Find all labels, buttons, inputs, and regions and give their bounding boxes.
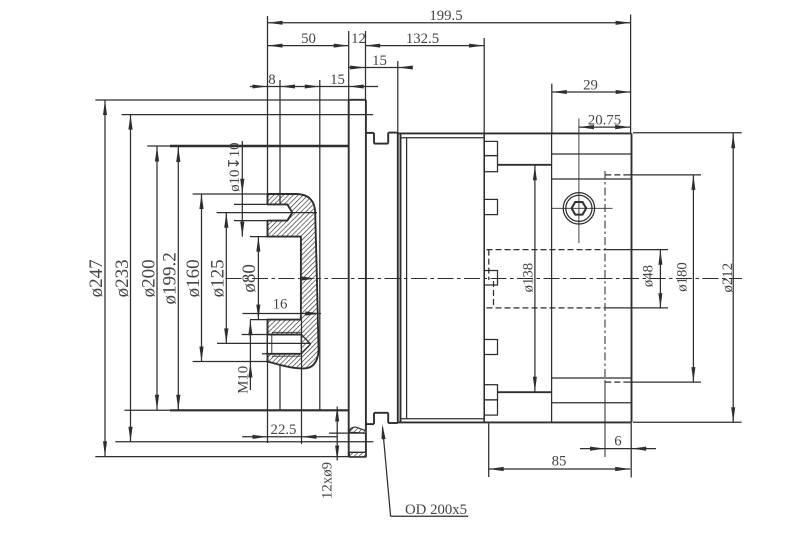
plate bolt hole lower hatch sliver — [349, 452, 366, 457]
front pilot ring lower profile — [366, 413, 398, 424]
dim ø138 line — [533, 165, 537, 392]
svg-text:29: 29 — [583, 77, 598, 93]
svg-text:ø80: ø80 — [239, 264, 260, 293]
arrow on centerline to sleeve edge — [301, 276, 316, 280]
dim 12 text — [351, 31, 366, 47]
output flange cross-section (hatched) — [268, 194, 319, 368]
gearbox body rear edge — [483, 133, 485, 422]
dim ø200 label — [138, 259, 159, 297]
lower tapped hole drill cone — [301, 335, 310, 354]
ext dia212 top — [633, 132, 742, 134]
svg-text:ø138: ø138 — [521, 263, 537, 293]
dim ø160 line — [199, 194, 203, 362]
dim 50 line — [268, 44, 349, 48]
svg-text:15: 15 — [372, 53, 387, 69]
dim ø233 line — [128, 115, 132, 442]
ext for lower slot top — [242, 334, 268, 336]
dim 50 text — [301, 31, 316, 47]
callout 12xø9 text — [320, 462, 336, 499]
dim ø199.2 label — [160, 252, 181, 304]
ext dia180 bottom — [627, 381, 701, 383]
screw centerlines — [552, 119, 613, 244]
svg-text:ø160: ø160 — [183, 259, 204, 297]
ext line y=100 (plate top to dia247 dim) — [95, 99, 348, 101]
dim ø200 line — [155, 147, 159, 410]
callout ø10 cbore leader — [240, 141, 244, 237]
bolt hole centerline bottom y=441.7 — [115, 441, 373, 443]
plate bolt hole line y=433.1 — [329, 432, 366, 434]
ext x=551.8 above rear flange — [551, 84, 553, 134]
socket head cap screw (front view circles) — [563, 193, 594, 224]
ext x=348.7 above plate — [348, 31, 350, 100]
callout OD 200x5 text — [391, 502, 469, 518]
svg-text:ø180: ø180 — [675, 262, 691, 292]
dim 22.5 line — [242, 435, 337, 439]
dim ø138 label — [521, 263, 537, 293]
dim 20.75 line — [579, 125, 630, 129]
center axis (horizontal dash-dot centerline) — [226, 278, 743, 280]
front pilot ring upper profile (OD 200x5 spigot) — [366, 133, 398, 144]
ext x=631.2 below rear (85/6 dims) — [630, 423, 632, 478]
dim 8 text — [268, 72, 275, 88]
gearbox body front face (double line) — [398, 133, 401, 422]
upper hole centerline y=212.6 — [217, 212, 317, 214]
ext y=361.5 (dia160 bottom) — [193, 361, 268, 363]
dim 29 line — [552, 90, 631, 94]
ext y=236.6 (dia80 bore top) — [250, 236, 268, 238]
ext x=397.8 above body — [397, 61, 399, 133]
svg-text:6: 6 — [614, 433, 621, 449]
gearbox body inner chamfer line x=406.6 — [406, 138, 408, 418]
hidden bore end steps (dashed verticals) — [489, 250, 494, 308]
output flange skirt silhouette bottom (dia 200) — [124, 409, 348, 411]
dim ø80 label — [239, 264, 260, 293]
gearbox square mounting plate (section, front face / back face / top / bottom) — [349, 100, 366, 457]
dim 15 text (row3) — [330, 72, 345, 88]
svg-text:M10: M10 — [236, 366, 252, 394]
dim 16 text — [273, 297, 288, 313]
vertical centerline of rear bolt recess x=605 — [604, 171, 606, 457]
svg-text:20.75: 20.75 — [588, 112, 621, 128]
dim 85 text — [552, 454, 567, 470]
svg-text:ø10↧10: ø10↧10 — [227, 142, 243, 191]
dim ø199.2 line — [176, 147, 180, 410]
dim ø48 line — [658, 250, 662, 309]
svg-text:85: 85 — [552, 454, 567, 470]
svg-text:132.5: 132.5 — [406, 31, 439, 47]
plate bottom corner hump (rounded corner section) with hatch — [349, 427, 366, 433]
dim 199.5 line — [268, 21, 631, 25]
upper bolt hole ext lines (left) — [234, 204, 268, 220]
callout ø10 cbore text — [227, 142, 243, 191]
ext y=194 (dia160 / flange top) — [193, 193, 268, 195]
callout OD 200x5 leader — [382, 424, 391, 516]
dim ø180 label — [675, 262, 691, 292]
svg-text:ø212: ø212 — [720, 263, 736, 293]
dim 15 text (row2) — [372, 53, 387, 69]
dim 6 text — [614, 433, 621, 449]
ext for lower slot bottom — [262, 353, 268, 355]
ext dia212 bottom — [633, 421, 742, 423]
hidden rear pilot recess dia 180 (dashed) — [605, 175, 627, 382]
lower hole centerline y=343.4 — [217, 342, 311, 344]
dim 8/15 line (row3) — [250, 85, 378, 89]
dim ø233 label — [112, 259, 133, 297]
dim 20.75 text — [588, 112, 621, 128]
dim 29 text — [583, 77, 598, 93]
svg-text:22.5: 22.5 — [271, 422, 297, 438]
ext x=301.5 below pocket floor — [301, 320, 303, 444]
ext x=267.5 above flange face — [267, 16, 269, 194]
dim 199.5 text — [429, 8, 462, 24]
svg-text:8: 8 — [268, 72, 275, 88]
dim ø160 label — [183, 259, 204, 297]
callout 12xø9 leader — [335, 407, 339, 461]
svg-text:12xø9: 12xø9 — [320, 462, 336, 499]
ext x=319.8 — [319, 80, 321, 410]
dim 15 line (row2) — [348, 66, 413, 70]
callout M10 text — [236, 366, 252, 394]
ext x=631 above rear flange — [630, 15, 632, 134]
rear flange left and right edges — [552, 133, 632, 422]
dim ø48 label — [641, 265, 657, 287]
ext x=488.7 below body (85 dim) — [488, 424, 490, 478]
ext x=484.2 above body — [483, 38, 485, 133]
dim ø125 label — [208, 259, 229, 297]
dim 132.5 text — [406, 31, 439, 47]
ext y=319.6 (dia80 bore bottom) — [250, 319, 268, 321]
lower tapped hole M10 core slot — [268, 335, 302, 354]
dim 6 line — [580, 447, 656, 451]
ext dia180 top — [627, 174, 701, 176]
svg-text:ø247: ø247 — [86, 259, 107, 297]
hidden output coupling bore dia 48 (dashed + solid ext) — [487, 250, 669, 308]
svg-text:50: 50 — [301, 31, 316, 47]
dim ø80 line — [256, 237, 260, 320]
dim 132.5 line — [365, 44, 484, 48]
dim ø247 label — [86, 259, 107, 297]
svg-text:ø125: ø125 — [208, 259, 229, 297]
dim 12 (outside arrows) — [365, 44, 380, 48]
svg-text:ø200: ø200 — [138, 259, 159, 297]
svg-text:199.5: 199.5 — [429, 8, 462, 24]
dim ø212 line — [731, 133, 735, 422]
svg-text:15: 15 — [330, 72, 345, 88]
retaining screws / bosses on body rear face — [484, 141, 497, 415]
svg-text:ø233: ø233 — [112, 259, 133, 297]
ext x=280 (counterbore depth 8) — [279, 80, 281, 410]
callout M10 leader — [248, 320, 252, 390]
dim ø180 line — [691, 175, 695, 382]
bolt hole centerline top y=114.6 — [122, 114, 374, 116]
neck cylinder silhouette (dia 138) — [498, 165, 552, 392]
svg-text:12: 12 — [351, 31, 366, 47]
dim 85 line — [489, 467, 631, 471]
lower tapped hole M10 thread lines — [272, 332, 302, 356]
rear flange inner circle edges — [552, 154, 632, 403]
ext x=267.5 below flange — [267, 362, 269, 443]
dim ø125 line — [224, 213, 228, 344]
dim ø247 line — [103, 100, 107, 456]
svg-text:ø199.2: ø199.2 — [160, 252, 181, 304]
gearbox body + rear housing bottom edge — [398, 419, 632, 423]
line y=313.5 with arrow to sleeve edge — [243, 311, 322, 315]
svg-text:OD 200x5: OD 200x5 — [405, 502, 467, 518]
gearbox body + rear housing top edge — [398, 133, 632, 137]
screw hex socket — [572, 202, 587, 215]
ext x=365.5 above plate — [365, 31, 367, 100]
output flange skirt silhouette top (dia 200) — [147, 145, 349, 147]
ext y=456.6 (plate bottom to dia247) — [95, 456, 348, 458]
dim 22.5 text — [271, 422, 297, 438]
dim ø212 label — [720, 263, 736, 293]
svg-text:ø48: ø48 — [641, 265, 657, 287]
svg-text:16: 16 — [273, 297, 288, 313]
